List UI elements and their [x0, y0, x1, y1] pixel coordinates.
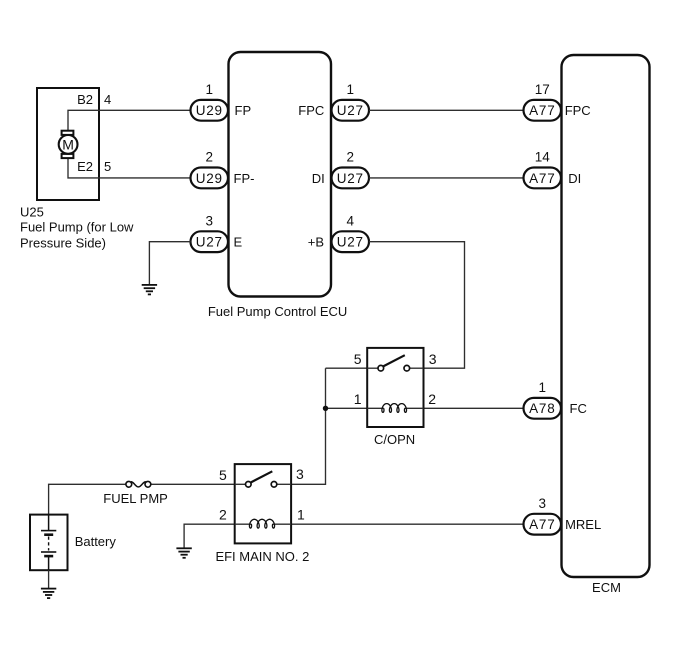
svg-text:A77: A77 — [529, 171, 555, 186]
label ECM — [592, 580, 621, 595]
wire — [291, 368, 325, 484]
svg-text:U27: U27 — [337, 103, 364, 118]
wire — [291, 523, 523, 525]
svg-text:3: 3 — [539, 496, 547, 511]
svg-text:17: 17 — [535, 82, 550, 97]
svg-text:U29: U29 — [196, 171, 223, 186]
svg-text:FPC: FPC — [298, 103, 324, 118]
pin 5 — [219, 467, 227, 483]
wire — [184, 524, 235, 547]
svg-text:U27: U27 — [337, 235, 364, 250]
wire — [68, 110, 191, 130]
pin E — [234, 234, 243, 249]
svg-text:3: 3 — [296, 466, 304, 482]
wire — [149, 242, 190, 285]
fuse FUEL PMP — [126, 481, 151, 487]
svg-text:4: 4 — [104, 92, 111, 107]
svg-text:2: 2 — [347, 150, 355, 165]
svg-text:3: 3 — [429, 351, 437, 367]
svg-text:2: 2 — [206, 150, 214, 165]
wire — [326, 367, 368, 369]
pin FP — [235, 103, 252, 118]
fuel pump control ECU box — [229, 52, 332, 297]
svg-text:5: 5 — [104, 159, 111, 174]
pin 1 — [297, 507, 305, 523]
relay EFI MAIN NO. 2 — [235, 464, 291, 543]
motor M — [59, 131, 78, 158]
svg-text:3: 3 — [206, 213, 214, 228]
svg-text:+B: +B — [308, 234, 324, 249]
svg-text:U25: U25 — [20, 204, 44, 219]
pin +B — [308, 234, 324, 249]
svg-text:ECM: ECM — [592, 580, 621, 595]
svg-text:1: 1 — [347, 82, 355, 97]
wire — [49, 484, 126, 514]
wire — [326, 407, 368, 409]
svg-text:Fuel Pump Control ECU: Fuel Pump Control ECU — [208, 304, 347, 319]
label U25 Fuel Pump (for Low Pressure Side) — [20, 204, 134, 250]
pin 2 — [219, 507, 227, 523]
fuel pump box U25 — [37, 88, 99, 200]
label Battery — [75, 534, 117, 549]
pin 3 — [429, 351, 437, 367]
svg-text:E2: E2 — [77, 159, 93, 174]
svg-text:14: 14 — [535, 150, 551, 165]
connector U29 pin 2 — [191, 150, 229, 189]
wire — [369, 242, 465, 369]
connector U27 pin 3 — [191, 213, 229, 252]
svg-text:U27: U27 — [337, 171, 364, 186]
ground — [142, 285, 157, 295]
pin DI — [312, 171, 325, 186]
svg-text:FUEL PMP: FUEL PMP — [103, 491, 168, 506]
svg-text:1: 1 — [539, 380, 547, 395]
connector U27 pin 2 — [332, 150, 370, 189]
connector A77 pin 14 — [524, 150, 562, 189]
pin MREL — [565, 517, 601, 532]
svg-text:5: 5 — [354, 351, 362, 367]
svg-text:2: 2 — [428, 391, 436, 407]
relay C/OPN — [367, 348, 423, 427]
svg-text:DI: DI — [568, 171, 581, 186]
pin DI — [568, 171, 581, 186]
connector U29 pin 1 — [191, 82, 229, 121]
pin 1 — [354, 391, 362, 407]
ground — [41, 589, 56, 599]
svg-text:A77: A77 — [529, 103, 555, 118]
svg-text:MREL: MREL — [565, 517, 601, 532]
battery — [30, 515, 68, 571]
pin 5 — [354, 351, 362, 367]
pin E2 — [77, 159, 93, 174]
wire — [68, 158, 191, 178]
svg-text:5: 5 — [219, 467, 227, 483]
connector A78 pin 1 — [524, 380, 562, 419]
svg-text:A77: A77 — [529, 517, 555, 532]
node junction — [323, 406, 328, 411]
svg-text:2: 2 — [219, 507, 227, 523]
pin 3 — [296, 466, 304, 482]
label FUEL PMP — [103, 491, 168, 506]
ECM box — [562, 55, 650, 577]
svg-text:EFI MAIN NO. 2: EFI MAIN NO. 2 — [215, 549, 309, 564]
svg-text:Battery: Battery — [75, 534, 117, 549]
svg-text:FP-: FP- — [234, 171, 255, 186]
svg-text:M: M — [62, 136, 74, 152]
ground — [176, 548, 191, 558]
wire — [369, 177, 524, 179]
pin B2 — [77, 92, 93, 107]
svg-text:DI: DI — [312, 171, 325, 186]
svg-text:FPC: FPC — [565, 103, 591, 118]
pin 4 — [104, 92, 111, 107]
svg-text:FP: FP — [235, 103, 252, 118]
svg-text:E: E — [234, 234, 243, 249]
connector A77 pin 17 — [524, 82, 562, 121]
label Fuel Pump Control ECU — [208, 304, 347, 319]
svg-text:U27: U27 — [196, 235, 223, 250]
pin 2 — [428, 391, 436, 407]
pin FPC — [565, 103, 591, 118]
svg-text:Fuel Pump (for Low: Fuel Pump (for Low — [20, 220, 134, 235]
svg-text:B2: B2 — [77, 92, 93, 107]
svg-text:C/OPN: C/OPN — [374, 432, 415, 447]
svg-text:4: 4 — [347, 213, 355, 228]
svg-text:U29: U29 — [196, 103, 223, 118]
pin 5 — [104, 159, 111, 174]
svg-text:1: 1 — [297, 507, 305, 523]
svg-text:Pressure Side): Pressure Side) — [20, 236, 106, 251]
svg-text:1: 1 — [206, 82, 214, 97]
pin FC — [570, 401, 587, 416]
pin FPC — [298, 103, 324, 118]
wire — [424, 407, 524, 409]
svg-text:1: 1 — [354, 391, 362, 407]
connector U27 pin 4 — [332, 213, 370, 252]
wire — [48, 570, 50, 588]
label EFI MAIN NO. 2 — [215, 549, 309, 564]
wire — [151, 483, 235, 485]
wire — [369, 109, 524, 111]
connector A77 pin 3 — [524, 496, 562, 535]
svg-text:A78: A78 — [529, 401, 555, 416]
pin FP- — [234, 171, 255, 186]
label C/OPN — [374, 432, 415, 447]
connector U27 pin 1 — [332, 82, 370, 121]
svg-text:FC: FC — [570, 401, 587, 416]
